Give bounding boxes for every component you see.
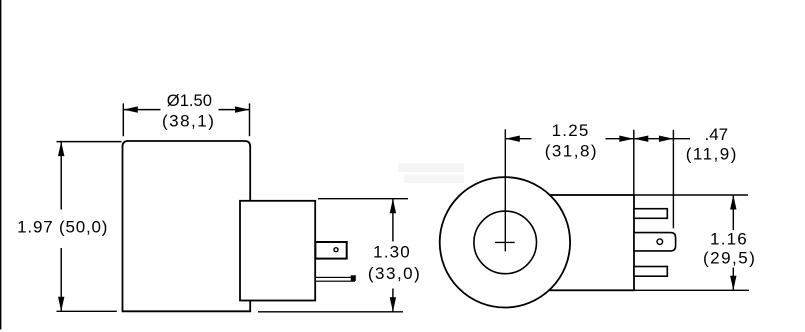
svg-text:.47: .47 — [704, 125, 728, 144]
dimension 1.16 (29,5): extension lines — [634, 195, 749, 290]
ground blade terminal (side view) — [315, 275, 355, 281]
spade terminal middle with hole (top view) — [634, 233, 676, 251]
svg-text:(33,0): (33,0) — [368, 264, 421, 283]
coil inner circle (top view) — [474, 211, 537, 274]
svg-text:(11,9): (11,9) — [686, 145, 738, 164]
page left border line — [0, 0, 2, 330]
dimension 1.16 (29,5): dimension line and arrows — [730, 195, 736, 290]
svg-text:(38,1): (38,1) — [162, 112, 215, 131]
connector block (side view) — [240, 201, 315, 301]
faint erased watermark remnant — [398, 164, 464, 184]
svg-text:(31,8): (31,8) — [545, 141, 598, 160]
coil body (side view) — [123, 141, 251, 311]
dimension 1.97 (50,0): extension lines — [57, 142, 122, 312]
svg-text:1.25: 1.25 — [552, 121, 590, 140]
center cross and center extension line — [495, 129, 515, 251]
dimension 1.30 (33,0): extension lines — [258, 199, 408, 312]
dimension Ø1.50 text — [162, 91, 215, 130]
dimension 1.25 text — [545, 121, 598, 161]
svg-text:1.16: 1.16 — [710, 229, 748, 248]
svg-text:(29,5): (29,5) — [703, 248, 756, 267]
dimension .47 text — [686, 125, 738, 164]
svg-text:Ø1.50: Ø1.50 — [167, 91, 212, 110]
dimension 1.30 (33,0): dimension line and arrows — [390, 199, 396, 312]
dimension 1.16 text — [703, 229, 756, 267]
dimension Ø1.50 (38,1): dimension line and arrows — [123, 106, 249, 112]
dimension .47 (11,9): extension lines — [634, 130, 674, 229]
svg-text:1.30: 1.30 — [373, 243, 411, 262]
dimension 1.30 text — [368, 243, 421, 284]
spade terminal with hole (side view) — [315, 242, 346, 259]
coil outer circle (top view) — [440, 177, 570, 307]
svg-text:1.97 (50,0): 1.97 (50,0) — [17, 217, 108, 236]
dimension Ø1.50 (38,1): extension lines — [123, 103, 249, 136]
terminal blade bottom (top view) — [634, 267, 667, 277]
terminal blade top (top view) — [634, 209, 667, 219]
dimension 1.25 (31,8): dimension line and arrows — [505, 136, 634, 142]
dimension 1.97 (50,0): dimension line and arrows — [58, 142, 64, 312]
dimension .47 (11,9): dimension line, arrows and leader — [634, 136, 690, 142]
connector block (top view, right) — [548, 195, 634, 290]
dimension 1.97 text — [17, 217, 108, 236]
